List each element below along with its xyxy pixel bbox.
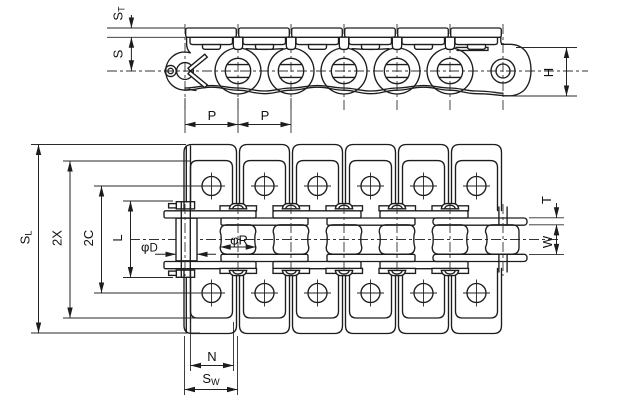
inner link plate top edges: [246, 48, 283, 51]
svg-text:2X: 2X: [50, 230, 65, 246]
svg-text:H: H: [541, 68, 556, 77]
plate bottom edge inner contour: [185, 86, 503, 94]
svg-text:SW: SW: [202, 371, 220, 387]
dimension T extension lines: [529, 217, 564, 219]
side view chain centerline: [107, 70, 588, 72]
bent attachment plates bottom row (plan): [184, 268, 237, 333]
dimension N: [191, 365, 234, 367]
dimension L extension lines: [123, 200, 173, 202]
dimension St: [130, 15, 132, 28]
svg-text:2C: 2C: [81, 230, 96, 247]
svg-text:φR: φR: [230, 233, 248, 248]
pin centerlines (plan): [184, 204, 186, 276]
dimension SL extension lines: [31, 144, 186, 146]
dimension S: [130, 37, 132, 70]
svg-text:SL: SL: [18, 231, 34, 245]
dimension L: [130, 201, 132, 278]
dimension 2C extension lines: [94, 185, 202, 187]
dimension P extension lines: [184, 98, 186, 133]
right end plate cap: [502, 44, 532, 96]
plan view chain centerline: [130, 239, 558, 241]
left end bushing (plan): [176, 218, 197, 261]
svg-text:N: N: [207, 349, 216, 364]
dimension H: [566, 48, 568, 97]
svg-text:S: S: [111, 49, 126, 58]
svg-text:L: L: [110, 234, 125, 241]
bent attachment plates top row (plan): [184, 145, 237, 211]
svg-text:ST: ST: [111, 6, 127, 21]
right end pin silhouette (plan): [498, 207, 500, 225]
dimension 2C: [101, 186, 103, 293]
dimension H extension lines: [516, 47, 577, 49]
svg-text:P: P: [208, 108, 217, 123]
dimension phiD: [155, 253, 176, 255]
left end pin with cotter pin: [177, 63, 194, 80]
dimension P pitch lines: [185, 124, 291, 126]
dimension phiR: [220, 244, 231, 249]
rollers with pin lines: [225, 58, 250, 83]
dimension SL: [38, 145, 40, 334]
plate bottom edge outer contour: [185, 87, 503, 95]
svg-text:W: W: [540, 235, 555, 248]
svg-text:φD: φD: [141, 240, 158, 255]
inner link plates (plan): [221, 218, 308, 225]
left end plate cap: [166, 52, 190, 90]
dimension T: [556, 203, 558, 218]
left end extended pin (plan): [180, 203, 182, 277]
plate step ledges at pins (plan): [220, 206, 257, 211]
dimension W extension line: [529, 253, 564, 255]
pin head dome washers (plan): [229, 204, 246, 209]
dimension Sw: [185, 389, 238, 391]
dimension St extension lines: [107, 27, 185, 29]
dimension W: [556, 225, 558, 255]
dimension N extension lines: [190, 322, 192, 371]
svg-text:T: T: [539, 196, 554, 204]
bent attachments top faces (side view): [190, 37, 233, 44]
rollers (plan view): [220, 225, 256, 254]
left pin washer and cotter (bottom): [176, 270, 194, 277]
dimension 2X: [69, 161, 71, 318]
dimension Sw extension lines: [184, 336, 186, 395]
svg-text:P: P: [261, 108, 270, 123]
outer link plates (plan): [164, 211, 256, 218]
left pin washer and cotter (top): [176, 202, 194, 209]
right end pin and bush: [491, 59, 515, 83]
dimension 2X extension lines: [63, 160, 191, 162]
link plate end contours: [215, 49, 261, 94]
attachment bend notches: [233, 37, 242, 49]
side view pin centerlines: [184, 24, 186, 112]
